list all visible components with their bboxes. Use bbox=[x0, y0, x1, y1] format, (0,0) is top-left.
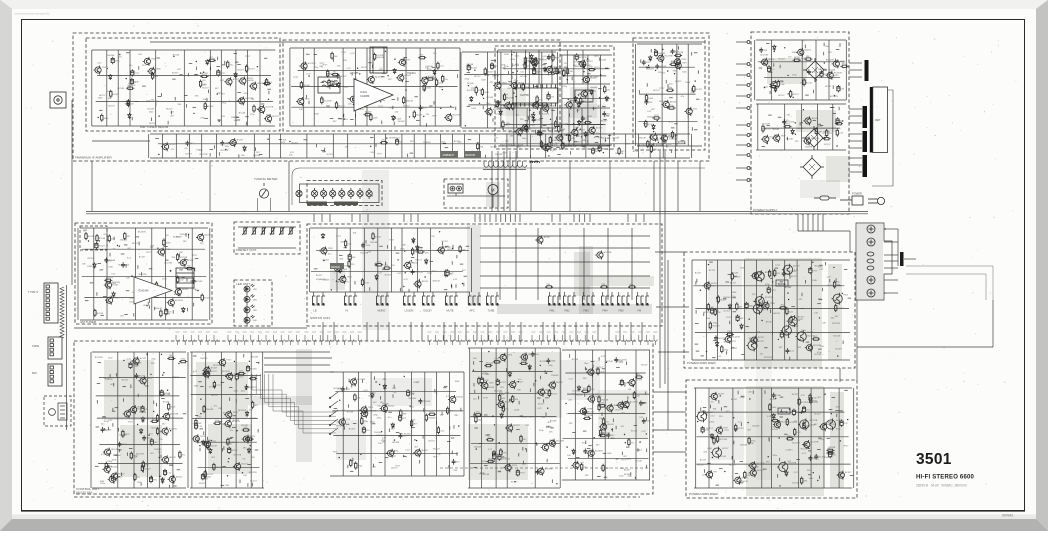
capacitor C36 bbox=[192, 279, 196, 285]
svg-text:10K: 10K bbox=[243, 475, 247, 477]
svg-text:100K: 100K bbox=[583, 388, 588, 390]
transistor Q65 bbox=[403, 261, 411, 270]
svg-text:BC157: BC157 bbox=[696, 89, 703, 91]
power supply box bbox=[751, 32, 849, 214]
switch area wire bbox=[480, 287, 650, 289]
capacitor C97 bbox=[829, 451, 832, 458]
node N195 bbox=[476, 448, 477, 449]
svg-text:BC327: BC327 bbox=[316, 275, 323, 277]
node N194 bbox=[492, 415, 493, 416]
capacitor C78 bbox=[614, 357, 618, 363]
transistor Q99 bbox=[380, 404, 388, 413]
wire bundle bbox=[797, 214, 799, 231]
diode D57 bbox=[740, 324, 743, 330]
shaded region bbox=[744, 258, 822, 368]
svg-text:33K: 33K bbox=[476, 142, 480, 144]
node N114 bbox=[170, 270, 171, 271]
svg-text:100K: 100K bbox=[600, 371, 605, 373]
resistor R183 bbox=[731, 272, 733, 280]
wire bbox=[692, 359, 850, 361]
node N3 bbox=[107, 68, 108, 69]
transistor Q9 bbox=[249, 82, 257, 91]
tap row wire bbox=[483, 169, 526, 171]
svg-text:33K: 33K bbox=[453, 470, 457, 472]
node N136 bbox=[178, 363, 179, 364]
svg-text:33K: 33K bbox=[171, 257, 175, 259]
lamp LP4 bbox=[339, 188, 345, 199]
node N167 bbox=[394, 439, 395, 440]
resistor R3 bbox=[227, 60, 229, 68]
svg-text:BC327: BC327 bbox=[390, 456, 397, 458]
terminal pin bbox=[747, 179, 750, 182]
svg-text:1N4148: 1N4148 bbox=[106, 277, 114, 279]
resistor R157 bbox=[502, 405, 504, 413]
svg-text:BC237B: BC237B bbox=[222, 371, 230, 373]
node N55 bbox=[675, 135, 676, 136]
svg-text:BC327: BC327 bbox=[695, 273, 702, 275]
wire bbox=[566, 50, 568, 84]
svg-text:BC157: BC157 bbox=[604, 436, 611, 438]
wire drop bbox=[584, 214, 586, 222]
transistor Q85 bbox=[224, 419, 232, 428]
node N251 bbox=[724, 471, 725, 472]
node N41 bbox=[470, 100, 471, 101]
svg-text:10K: 10K bbox=[653, 149, 657, 151]
node N241 bbox=[747, 422, 748, 423]
node N218 bbox=[812, 262, 813, 263]
switch area wire bbox=[583, 228, 585, 300]
resistor R112 bbox=[344, 239, 346, 247]
node N244 bbox=[733, 417, 734, 418]
svg-text:TP27: TP27 bbox=[812, 271, 818, 273]
node N15 bbox=[98, 117, 99, 118]
node N189 bbox=[525, 448, 526, 449]
node N198 bbox=[509, 400, 510, 401]
capacitor C69 bbox=[535, 469, 539, 475]
svg-text:TR26: TR26 bbox=[507, 355, 513, 357]
resistor R211 bbox=[794, 428, 796, 436]
svg-text:TP27: TP27 bbox=[196, 150, 202, 152]
svg-text:LED: LED bbox=[253, 289, 258, 291]
wire bbox=[191, 352, 193, 488]
capacitor C34 bbox=[782, 119, 786, 125]
node N30 bbox=[405, 89, 406, 90]
transistor Q148 bbox=[715, 426, 723, 435]
resistor R102 bbox=[155, 281, 157, 289]
node N112 bbox=[146, 305, 147, 306]
node N14 bbox=[119, 54, 120, 55]
resistor R190 bbox=[812, 338, 820, 340]
svg-text:BC327: BC327 bbox=[807, 336, 814, 338]
resistor R200 bbox=[769, 403, 771, 411]
svg-text:BC157: BC157 bbox=[653, 90, 660, 92]
wire bbox=[432, 292, 434, 296]
wire bbox=[322, 292, 324, 296]
wire bbox=[92, 351, 186, 353]
svg-text:BC157: BC157 bbox=[207, 474, 214, 476]
svg-text:BC157: BC157 bbox=[448, 249, 455, 251]
wire bbox=[342, 48, 344, 126]
capacitor C81 bbox=[642, 418, 646, 424]
capacitor C8 bbox=[490, 62, 493, 69]
svg-text:BC237B: BC237B bbox=[249, 472, 257, 474]
svg-text:1N4148: 1N4148 bbox=[407, 72, 415, 74]
svg-text:SWITCH UNIT: SWITCH UNIT bbox=[310, 316, 330, 320]
svg-text:BC157: BC157 bbox=[403, 106, 410, 108]
svg-text:1N4148: 1N4148 bbox=[487, 387, 495, 389]
wire drop bbox=[321, 214, 323, 222]
node N234 bbox=[712, 457, 713, 458]
wire to connector bbox=[849, 115, 862, 117]
diode D10 bbox=[433, 69, 436, 75]
terminal pin bbox=[747, 144, 750, 147]
shaded region bbox=[248, 396, 312, 405]
transistor Q75 bbox=[108, 475, 116, 484]
svg-text:10K: 10K bbox=[425, 253, 429, 255]
transistor Q3 bbox=[147, 67, 155, 76]
node N240 bbox=[735, 428, 736, 429]
transistor Q81 bbox=[123, 409, 131, 418]
wire bbox=[151, 228, 153, 320]
transistor Q20 bbox=[541, 104, 549, 113]
capacitor C19 bbox=[396, 138, 399, 145]
svg-text:BC237B: BC237B bbox=[539, 59, 547, 61]
transistor Q44 bbox=[555, 133, 563, 142]
frame bottom bevel bbox=[0, 519, 1048, 531]
svg-text:BC327: BC327 bbox=[88, 258, 95, 260]
wire bbox=[758, 61, 844, 63]
node N226 bbox=[788, 299, 789, 300]
resistor R95 bbox=[163, 238, 165, 246]
wire to connector bbox=[849, 140, 862, 142]
svg-text:100K: 100K bbox=[600, 403, 605, 405]
node N62 bbox=[568, 99, 569, 100]
shaded region bbox=[120, 425, 162, 477]
jack bus bbox=[897, 229, 899, 266]
resistor R75 bbox=[558, 125, 560, 133]
transistor Q55 bbox=[803, 137, 811, 146]
wire bbox=[311, 271, 463, 273]
headphone jack box bbox=[44, 396, 71, 426]
resistor R56 bbox=[380, 142, 388, 144]
svg-text:10K: 10K bbox=[515, 399, 519, 401]
wire bbox=[573, 55, 575, 145]
svg-text:100K: 100K bbox=[481, 80, 486, 82]
svg-text:33K: 33K bbox=[673, 71, 677, 73]
node N33 bbox=[357, 68, 358, 69]
wire bbox=[291, 86, 457, 88]
svg-text:10K: 10K bbox=[299, 109, 303, 111]
svg-text:BC157: BC157 bbox=[429, 440, 436, 442]
wire bbox=[106, 50, 108, 126]
svg-text:TR24: TR24 bbox=[347, 277, 353, 279]
transistor Q30 bbox=[662, 100, 670, 109]
svg-text:33K: 33K bbox=[591, 389, 595, 391]
resistor R87 bbox=[836, 129, 838, 137]
motor wire bbox=[492, 195, 494, 209]
svg-text:TR26: TR26 bbox=[165, 249, 171, 251]
resistor R42 bbox=[669, 63, 677, 65]
wire bbox=[736, 179, 747, 181]
node N7 bbox=[97, 71, 98, 72]
switch area wire bbox=[559, 228, 561, 300]
svg-text:1N4148: 1N4148 bbox=[638, 137, 646, 139]
svg-text:690/3 P/1 690A: 690/3 P/1 690A bbox=[76, 492, 93, 495]
wire drop bbox=[366, 322, 368, 341]
node N90 bbox=[788, 93, 789, 94]
node N196 bbox=[536, 444, 537, 445]
capacitor C86 bbox=[745, 302, 748, 309]
capacitor C5 bbox=[336, 73, 340, 79]
IF amplifier section box bbox=[73, 33, 709, 161]
led unit wire bbox=[246, 286, 248, 326]
svg-text:10K: 10K bbox=[814, 313, 818, 315]
capacitor C98 bbox=[808, 456, 812, 462]
node N105 bbox=[117, 245, 118, 246]
terminal pin bbox=[747, 134, 750, 137]
mains plug bbox=[868, 197, 885, 204]
wire bundle bbox=[807, 214, 809, 231]
capacitor C59 bbox=[194, 422, 197, 429]
wire ticks bbox=[306, 54, 458, 127]
svg-text:1N4148: 1N4148 bbox=[601, 400, 609, 402]
svg-text:www.freeservicemanuals.info: www.freeservicemanuals.info bbox=[15, 12, 50, 16]
node N172 bbox=[409, 405, 410, 406]
wire bbox=[91, 50, 93, 126]
svg-text:BC327: BC327 bbox=[836, 349, 843, 351]
svg-text:TP27: TP27 bbox=[322, 64, 328, 66]
svg-text:33K: 33K bbox=[251, 457, 255, 459]
svg-text:1N4148: 1N4148 bbox=[572, 391, 580, 393]
wire bbox=[562, 438, 648, 440]
wire bbox=[74, 327, 307, 329]
svg-text:10K: 10K bbox=[138, 54, 142, 56]
node N235 bbox=[779, 485, 780, 486]
svg-text:100K: 100K bbox=[555, 58, 560, 60]
potentiometer VR6 bbox=[288, 227, 293, 235]
svg-text:TR15: TR15 bbox=[200, 436, 206, 438]
svg-text:BC157: BC157 bbox=[730, 283, 737, 285]
svg-text:10K: 10K bbox=[392, 388, 396, 390]
node N57 bbox=[577, 127, 578, 128]
svg-text:BC548: BC548 bbox=[347, 412, 354, 414]
node N153 bbox=[211, 440, 212, 441]
svg-text:BC327: BC327 bbox=[738, 428, 745, 430]
wire bbox=[618, 292, 620, 296]
capacitor C7 bbox=[375, 96, 379, 102]
wire bbox=[417, 228, 419, 292]
wire drop bbox=[699, 161, 701, 211]
svg-text:TP27: TP27 bbox=[161, 144, 167, 146]
svg-text:BC327: BC327 bbox=[703, 312, 710, 314]
capacitor C87 bbox=[714, 335, 718, 341]
svg-text:100K: 100K bbox=[522, 416, 527, 418]
power amplifier 1 box bbox=[684, 252, 855, 368]
resistor R61 bbox=[545, 147, 553, 149]
wire bbox=[756, 39, 846, 41]
wire bbox=[561, 55, 563, 145]
wire bbox=[423, 292, 425, 296]
svg-text:33K: 33K bbox=[372, 466, 376, 468]
wire ticks bbox=[473, 355, 554, 483]
svg-text:33K: 33K bbox=[599, 418, 603, 420]
bridge wire bbox=[264, 357, 332, 359]
node N80 bbox=[517, 71, 518, 72]
node N209 bbox=[565, 403, 566, 404]
wire bbox=[646, 292, 648, 296]
svg-text:BC157: BC157 bbox=[631, 430, 638, 432]
resistor R214 bbox=[826, 452, 834, 454]
resistor R142 bbox=[204, 470, 206, 478]
wire bbox=[349, 228, 351, 292]
svg-text:BC327: BC327 bbox=[113, 94, 120, 96]
capacitor C43 bbox=[361, 243, 365, 249]
transistor Q94 bbox=[360, 406, 368, 415]
resistor R59 bbox=[618, 147, 620, 155]
svg-text:33K: 33K bbox=[225, 485, 229, 487]
svg-text:BC327: BC327 bbox=[172, 72, 179, 74]
wire drop bbox=[498, 322, 500, 341]
node N149 bbox=[150, 374, 151, 375]
node N140 bbox=[159, 476, 160, 477]
resistor R189 bbox=[790, 316, 792, 324]
resistor R54 bbox=[580, 97, 582, 105]
wire bbox=[298, 69, 460, 71]
svg-text:LOUDN: LOUDN bbox=[405, 310, 414, 313]
wire bbox=[736, 74, 747, 76]
resistor R15 bbox=[331, 73, 339, 75]
node N25 bbox=[423, 116, 424, 117]
diode D22 bbox=[530, 54, 533, 60]
svg-text:33K: 33K bbox=[480, 146, 484, 148]
diode D45 bbox=[202, 440, 205, 446]
transistor Q96 bbox=[349, 377, 357, 386]
svg-text:BC548: BC548 bbox=[520, 76, 527, 78]
wire bbox=[430, 228, 432, 292]
resistor R65 bbox=[96, 234, 98, 242]
wire bbox=[604, 350, 606, 480]
shaded region bbox=[372, 378, 432, 406]
capacitor C38 bbox=[95, 242, 98, 249]
node N182 bbox=[473, 370, 474, 371]
node N92 bbox=[784, 47, 785, 48]
node N63 bbox=[580, 129, 581, 130]
bridge wire bbox=[264, 364, 330, 366]
node N147 bbox=[162, 374, 163, 375]
capacitor C90 bbox=[767, 286, 770, 293]
transistor Q36 bbox=[161, 142, 169, 151]
wire drop bbox=[589, 214, 591, 222]
control unit box inner dashed bottom bbox=[74, 496, 640, 498]
svg-text:TR34: TR34 bbox=[113, 297, 119, 299]
svg-text:LED: LED bbox=[253, 299, 258, 301]
headphone box bbox=[80, 226, 107, 250]
resistor R52 bbox=[566, 67, 568, 75]
resistor R62 bbox=[647, 140, 649, 148]
wire bbox=[498, 145, 610, 147]
svg-text:10K: 10K bbox=[352, 257, 356, 259]
wire bbox=[541, 52, 543, 128]
node N155 bbox=[200, 413, 201, 414]
node N23 bbox=[385, 51, 386, 52]
svg-text:BC237B: BC237B bbox=[811, 442, 819, 444]
resistor R124 bbox=[130, 452, 132, 460]
transistor Q144 bbox=[748, 461, 756, 470]
svg-text:1N4148: 1N4148 bbox=[87, 266, 95, 268]
label chip 2 bbox=[464, 151, 481, 158]
connector bar 4 bbox=[863, 155, 868, 177]
wire bbox=[736, 41, 747, 43]
transistor Q105 bbox=[548, 381, 556, 390]
svg-text:1N4148: 1N4148 bbox=[200, 358, 208, 360]
svg-text:10K: 10K bbox=[677, 61, 681, 63]
wire bbox=[332, 134, 334, 158]
resistor R151 bbox=[400, 409, 402, 417]
svg-text:TR38: TR38 bbox=[233, 412, 239, 414]
wire bbox=[513, 108, 515, 146]
switch S5 bbox=[423, 296, 436, 306]
resistor R158 bbox=[520, 362, 528, 364]
svg-text:BC237B: BC237B bbox=[764, 357, 772, 359]
svg-text:BC157: BC157 bbox=[292, 142, 299, 144]
wire bbox=[440, 134, 442, 158]
wire bbox=[498, 49, 610, 51]
wire bbox=[117, 352, 119, 488]
transistor Q29 bbox=[660, 134, 668, 143]
capacitor C93 bbox=[802, 406, 805, 413]
wire bbox=[635, 350, 637, 480]
node N64 bbox=[370, 146, 371, 147]
wire bbox=[796, 260, 798, 360]
border rule bottom thick bbox=[21, 510, 1025, 512]
capacitor C45 bbox=[163, 469, 166, 476]
wire bbox=[545, 134, 547, 158]
resistor R34 bbox=[512, 102, 514, 110]
diode D18 bbox=[605, 96, 608, 102]
node N191 bbox=[499, 442, 500, 443]
svg-text:BC157: BC157 bbox=[551, 393, 558, 395]
switch S14 bbox=[637, 296, 650, 306]
wire bbox=[269, 134, 271, 158]
node N127 bbox=[424, 276, 425, 277]
svg-text:BC327: BC327 bbox=[513, 425, 520, 427]
node N219 bbox=[770, 278, 771, 279]
svg-text:BC327: BC327 bbox=[248, 69, 255, 71]
svg-text:PRESET UNIT: PRESET UNIT bbox=[236, 248, 257, 252]
wire ticks bbox=[85, 233, 198, 316]
svg-text:TR30: TR30 bbox=[770, 303, 776, 305]
node N82 bbox=[580, 121, 581, 122]
wire bbox=[80, 227, 208, 229]
resistor R188 bbox=[833, 280, 835, 288]
wire bbox=[478, 292, 480, 296]
capacitor C17 bbox=[655, 64, 659, 70]
wire bbox=[625, 134, 627, 158]
svg-text:BD242: BD242 bbox=[405, 75, 412, 77]
wire bbox=[401, 134, 403, 158]
svg-text:33K: 33K bbox=[583, 378, 587, 380]
transistor Q53 bbox=[803, 116, 811, 125]
capacitor C55 bbox=[228, 447, 231, 454]
wire bbox=[560, 144, 612, 146]
resistor R84 bbox=[803, 78, 805, 86]
svg-text:TDA1046: TDA1046 bbox=[138, 290, 149, 293]
capacitor C12 bbox=[547, 93, 550, 100]
svg-text:10K: 10K bbox=[158, 419, 162, 421]
capacitor C26 bbox=[582, 63, 586, 69]
node N46 bbox=[667, 70, 668, 71]
svg-text:1N4148: 1N4148 bbox=[550, 124, 558, 126]
